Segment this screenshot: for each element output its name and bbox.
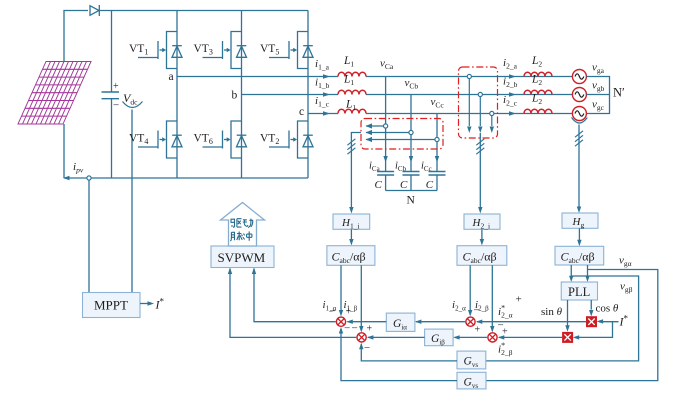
svg-text:+: +: [502, 327, 508, 338]
inverter leg 3: [307, 11, 309, 179]
svg-text:−: −: [344, 323, 350, 335]
wire top rail: [99, 10, 308, 12]
box Cabc2: [457, 246, 507, 266]
slashes sense 2: [476, 139, 484, 154]
box Cabc1: [327, 246, 375, 266]
inductor L1 phase b: [338, 90, 366, 94]
svg-text:c: c: [299, 106, 304, 118]
current arrow i2_c: [509, 111, 516, 115]
voltage sense dash-dot box 1: [361, 119, 443, 150]
junction dot i2b: [478, 92, 482, 96]
junction dot vCc: [435, 137, 439, 141]
sense arrow vCc: [366, 139, 435, 141]
svg-text:−: −: [474, 305, 480, 317]
arrow into H2: [478, 207, 482, 214]
wire M2 output to J4: [499, 336, 563, 338]
transistor VT3: [203, 32, 247, 69]
sense drop i2b: [479, 97, 481, 126]
inductor L2 phase b: [524, 90, 552, 94]
wire i2_beta down to J4: [491, 265, 493, 326]
wire bottom rail: [64, 177, 308, 179]
wire sense cable 1: [351, 133, 361, 209]
summing junction J1: [336, 317, 345, 326]
svg-text:SVPWM: SVPWM: [218, 250, 266, 265]
wire Gvs lower to J1: [341, 329, 457, 381]
transistor VT6: [203, 121, 247, 158]
svg-text:C: C: [375, 179, 383, 191]
wire vCa tap: [385, 77, 387, 172]
junction dot i2c: [490, 111, 494, 115]
wire G_i_beta to J2: [368, 336, 425, 338]
wire i2_alpha down to J3: [469, 265, 471, 311]
svg-text:−: −: [330, 306, 336, 318]
summing junction J3: [466, 317, 475, 326]
wire I* branch to M2: [575, 322, 613, 338]
wire i1_beta down to J2: [360, 265, 362, 326]
svg-text:b: b: [232, 90, 238, 102]
slashes sense 1: [347, 139, 355, 154]
svg-text:+: +: [367, 324, 373, 335]
transistor VT2: [269, 121, 313, 158]
capacitor Ca: [377, 172, 394, 176]
current arrow i1_c: [323, 111, 330, 115]
svg-text:+: +: [516, 294, 522, 306]
transistor VT5: [269, 32, 313, 69]
wire J1 output to SVPWM: [254, 269, 336, 322]
wire i1_alpha down to J1: [340, 265, 342, 311]
wire grid neutral bus N': [586, 77, 609, 114]
svg-text:+: +: [113, 81, 119, 92]
inverter leg 2: [241, 11, 243, 179]
capacitor Vdc plates: [102, 92, 120, 99]
CJK text mai-chong 脉冲 (pulse): [230, 231, 252, 241]
wire I* to M1: [599, 321, 619, 323]
wire phase a: [177, 76, 572, 78]
inductor L1 phase a: [338, 72, 366, 76]
current sense dash-dot box 2: [459, 67, 498, 138]
box Gvs lower: [457, 372, 486, 389]
transistor VT1: [138, 32, 182, 69]
current arrow i2_b: [509, 92, 516, 96]
transistor VT4: [138, 121, 182, 158]
capacitor Cc: [429, 172, 446, 176]
svg-text:+: +: [346, 307, 352, 318]
box H2_i: [464, 214, 500, 229]
current arrow iCc: [435, 156, 439, 163]
junction dot vCb: [409, 130, 413, 134]
svg-text:N: N: [407, 195, 416, 207]
inverter leg 1: [176, 11, 178, 179]
arrow into H1: [349, 207, 353, 214]
PV panel: [18, 62, 91, 125]
wire J2 output to SVPWM: [230, 269, 356, 338]
sense arrow vCb: [366, 132, 409, 134]
wire vg_alpha branch right and down: [486, 270, 658, 381]
wire PV bottom to bottom rail: [63, 124, 65, 178]
box G_i_alpha: [386, 313, 415, 331]
current arrow i1_b: [323, 92, 330, 96]
diode D (blocking): [90, 5, 99, 16]
wire Vdc sense down to MPPT: [131, 110, 133, 293]
wire vg_beta branch right and down: [486, 276, 639, 361]
Vdc probe arc: [123, 102, 143, 108]
box Gvs upper: [457, 351, 486, 369]
current arrow iCb: [409, 156, 413, 163]
grid voltage probe arc: [572, 118, 588, 124]
arrow MPPT output: [140, 303, 149, 305]
svg-text:C: C: [426, 179, 434, 191]
wire sense cable 2: [479, 133, 481, 209]
summing junction J2: [357, 333, 366, 342]
grid source vgc: [572, 107, 586, 121]
capacitor Cb: [403, 172, 420, 176]
wire Gvs upper to J2: [361, 344, 457, 361]
junction dot vCa: [384, 124, 388, 128]
wire PLL cos output: [590, 300, 592, 310]
CJK text qu-dong 驱动 (drive): [231, 219, 253, 228]
wire PV top to rail: [64, 11, 88, 62]
wire J4 to G_i_beta: [455, 336, 488, 338]
wire PLL sin output: [567, 300, 569, 326]
wire vgb out of Cabc3 to PLL: [587, 265, 589, 277]
box Hg: [562, 213, 598, 228]
capacitor Vdc bottom wire: [111, 99, 113, 178]
wire vCb tap: [410, 95, 412, 172]
drive pulse big arrow: [221, 203, 265, 247]
wire J3 to G_i_alpha: [416, 321, 465, 323]
box MPPT: [83, 293, 141, 318]
junction dot i2a: [467, 74, 471, 78]
wire vCc tap: [436, 114, 438, 172]
box G_i_beta: [425, 329, 454, 346]
multiplier M2 (sin x I*): [563, 332, 573, 342]
arrow Hg to Cabc3: [578, 228, 580, 240]
grid source vgb: [572, 88, 586, 102]
inductor L2 phase a: [524, 72, 552, 76]
box H1_i: [333, 214, 370, 229]
grid source vga: [572, 70, 586, 84]
box SVPWM: [211, 246, 274, 268]
current arrow i2_a: [509, 74, 516, 78]
wire N bus: [386, 190, 437, 192]
wire sense cable 3: [578, 125, 580, 208]
wire vga out of Cabc3 to PLL: [570, 265, 572, 277]
svg-text:sin θ: sin θ: [541, 306, 563, 318]
svg-text:−: −: [364, 342, 370, 354]
wire ipv sense down to MPPT: [88, 180, 90, 292]
arrow H1 to Cabc1: [350, 229, 352, 240]
box PLL: [561, 282, 597, 300]
svg-text:−: −: [352, 323, 358, 335]
svg-text:+: +: [475, 325, 481, 336]
sense drop i2a: [468, 79, 470, 126]
summing junction J4: [488, 333, 497, 342]
current arrow iCa: [383, 156, 387, 163]
wire phase c: [308, 113, 572, 115]
sense drop i2c: [491, 116, 493, 126]
svg-text:MPPT: MPPT: [94, 298, 128, 313]
box Cabc3: [555, 246, 604, 265]
svg-text:−: −: [113, 100, 119, 112]
current arrow i_pv: [63, 176, 70, 180]
svg-text:PLL: PLL: [568, 285, 590, 299]
current arrow i1_a: [323, 74, 330, 78]
wire M1 output to J3: [477, 321, 587, 323]
svg-text:cos θ: cos θ: [596, 303, 619, 315]
svg-text:C: C: [400, 179, 408, 191]
capacitor Vdc branch top wire: [111, 11, 113, 93]
multiplier M1 (cos x I*): [587, 317, 597, 327]
arrow H2 to Cabc2: [481, 229, 483, 240]
svg-text:N′: N′: [613, 86, 625, 100]
svg-text:a: a: [169, 71, 174, 83]
inductor L1 phase c: [338, 109, 366, 113]
node on bottom rail (ipv sense): [87, 176, 91, 180]
slashes sense 3: [575, 131, 583, 146]
sense arrow vCa: [366, 125, 383, 127]
wire G_i_alpha to J1: [348, 321, 387, 323]
arrow into Hg: [577, 207, 581, 214]
wire phase b: [242, 94, 573, 96]
inductor L2 phase c: [524, 109, 552, 113]
